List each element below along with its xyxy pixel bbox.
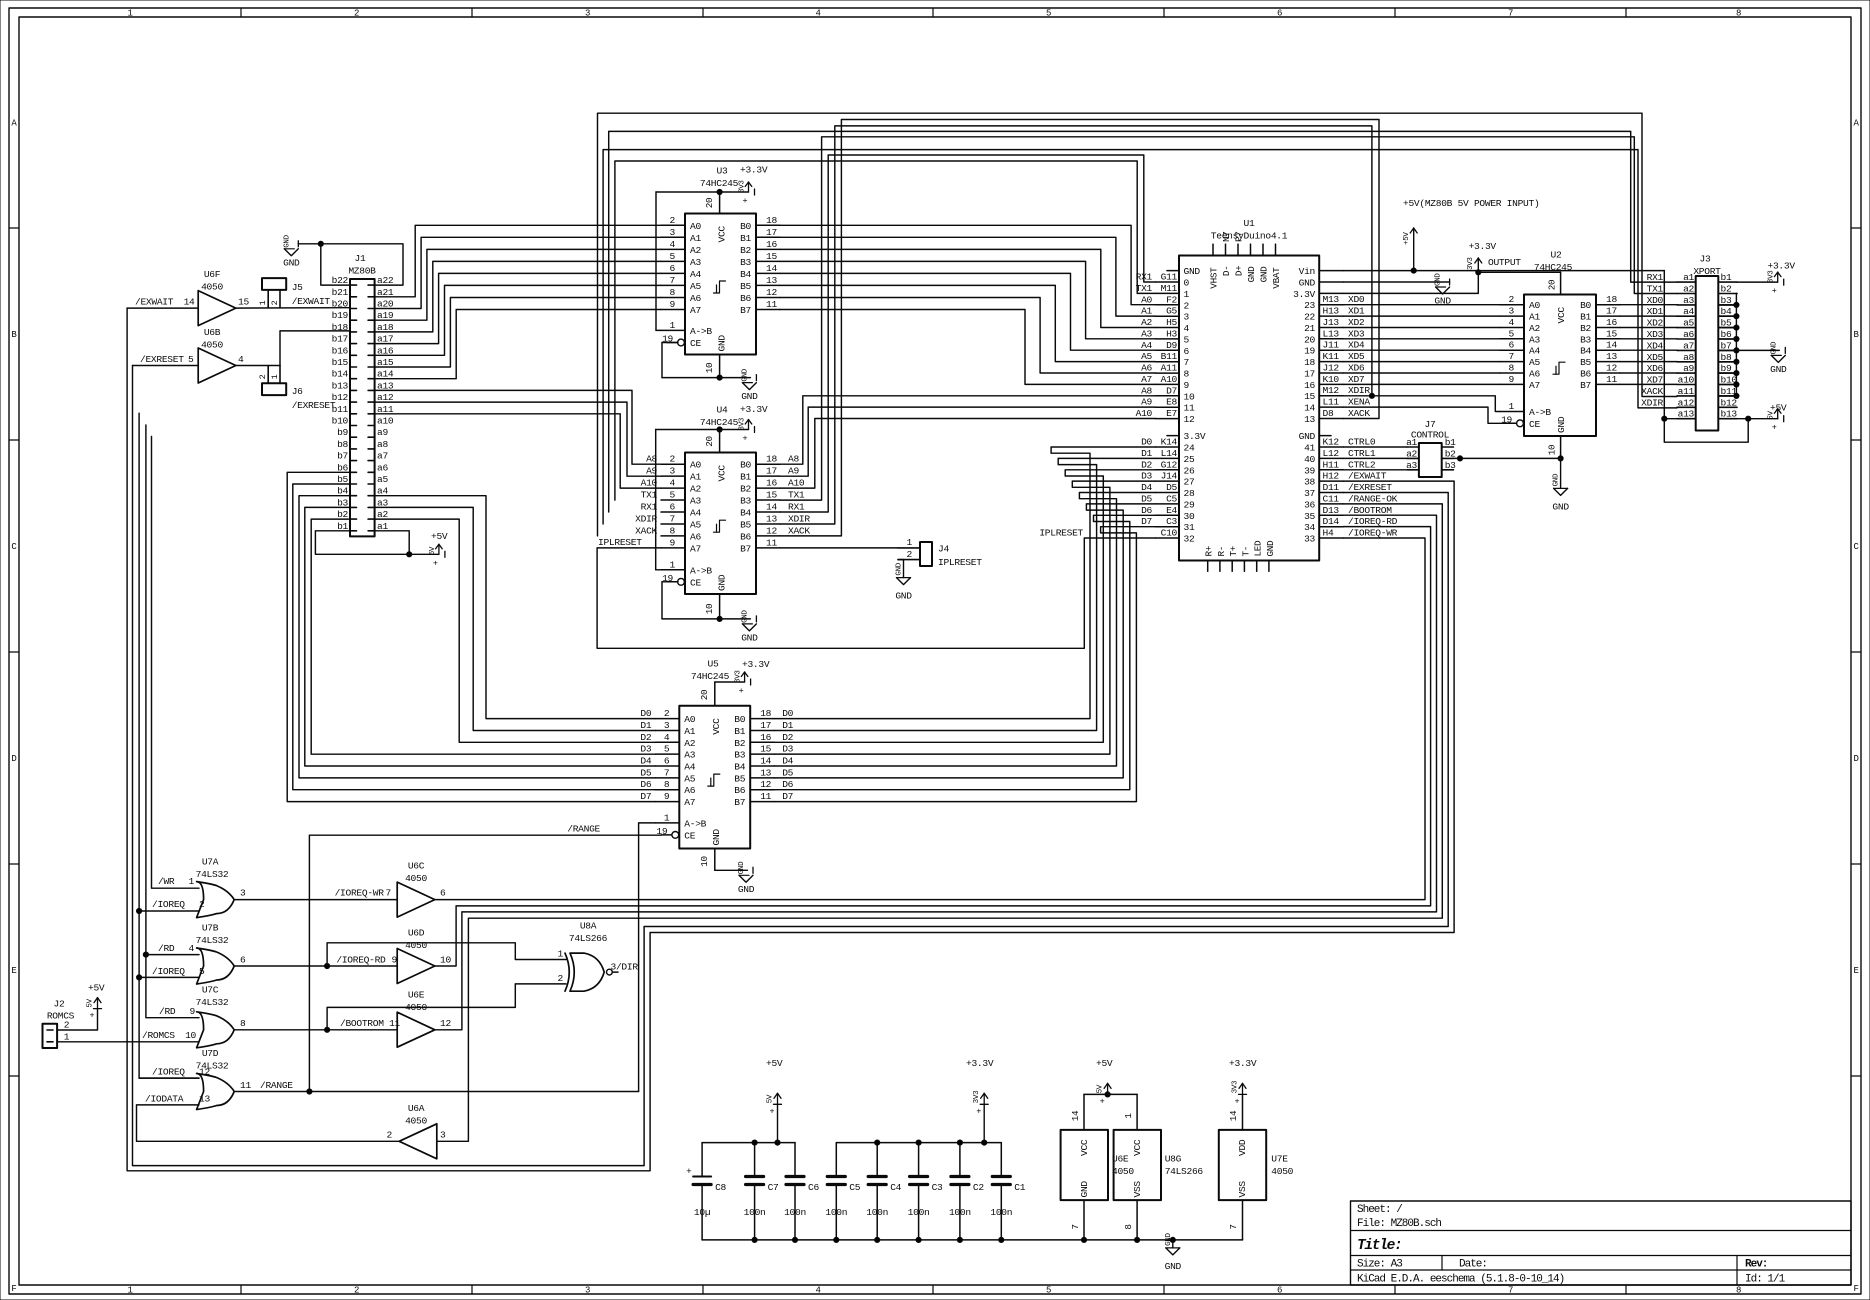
svg-text:74LS32: 74LS32 xyxy=(196,869,229,880)
svg-text:A1: A1 xyxy=(1141,306,1152,317)
svg-text:D8: D8 xyxy=(1323,408,1334,419)
svg-text:U2: U2 xyxy=(1551,250,1562,261)
svg-text:4050: 4050 xyxy=(1271,1166,1293,1177)
svg-text:6: 6 xyxy=(1277,9,1282,19)
svg-text:A2: A2 xyxy=(684,738,695,749)
svg-text:4050: 4050 xyxy=(405,873,427,884)
svg-text:C10: C10 xyxy=(1161,528,1178,539)
svg-text:6: 6 xyxy=(670,263,676,274)
svg-text:23: 23 xyxy=(1304,300,1315,311)
svg-text:1: 1 xyxy=(64,1031,70,1042)
svg-text:D-: D- xyxy=(1221,266,1232,277)
svg-text:F2: F2 xyxy=(1166,294,1177,305)
IC U1 TeensyDuino4.1 xyxy=(1179,256,1319,561)
svg-text:GND: GND xyxy=(717,335,728,352)
svg-text:A7: A7 xyxy=(684,797,695,808)
svg-text:+3.3V: +3.3V xyxy=(1768,261,1796,272)
svg-text:U6A: U6A xyxy=(408,1103,425,1114)
svg-text:U4: U4 xyxy=(717,405,728,416)
svg-text:A5: A5 xyxy=(690,520,701,531)
svg-text:J14: J14 xyxy=(1161,471,1178,482)
svg-text:3: 3 xyxy=(585,9,590,19)
ground symbol at J3 b7 xyxy=(1784,347,1786,353)
svg-text:2: 2 xyxy=(387,1130,393,1141)
svg-text:CE: CE xyxy=(690,577,701,588)
svg-text:/EXRESET: /EXRESET xyxy=(292,400,336,411)
wire net /IOREQ-RD to U8A.1 xyxy=(327,943,566,966)
svg-text:B2: B2 xyxy=(1580,323,1591,334)
svg-text:4: 4 xyxy=(1184,323,1190,334)
power symbol +5V MZ80B power input xyxy=(1413,228,1415,271)
svg-text:B1: B1 xyxy=(740,472,751,483)
svg-text:E: E xyxy=(11,966,16,976)
svg-text:+: + xyxy=(433,558,438,568)
svg-text:K10: K10 xyxy=(1323,374,1340,385)
svg-text:14: 14 xyxy=(766,502,777,513)
svg-text:9: 9 xyxy=(190,1006,196,1017)
svg-text:1: 1 xyxy=(1509,401,1515,412)
svg-text:+: + xyxy=(1772,286,1777,296)
svg-text:20: 20 xyxy=(699,690,710,701)
wire net A8 J1.a13 to U4.A0 xyxy=(375,390,661,464)
svg-text:12: 12 xyxy=(1184,414,1195,425)
svg-text:OUTPUT: OUTPUT xyxy=(1488,257,1521,268)
svg-text:B: B xyxy=(11,330,17,340)
svg-text:A0: A0 xyxy=(684,714,695,725)
svg-text:12: 12 xyxy=(199,1067,210,1078)
wire net GND U1 right xyxy=(1343,281,1449,283)
svg-text:XDIR: XDIR xyxy=(1641,397,1663,408)
wire bus J1 a21-a14 to U3 A0-A7 xyxy=(375,225,661,296)
capacitor C4 xyxy=(876,1143,878,1177)
svg-text:4050: 4050 xyxy=(201,340,223,351)
svg-text:10µ: 10µ xyxy=(694,1207,711,1218)
svg-text:U6D: U6D xyxy=(408,928,425,939)
svg-text:GND: GND xyxy=(1184,266,1201,277)
U1 bottom pins xyxy=(1207,561,1209,572)
svg-text:37: 37 xyxy=(1304,488,1315,499)
svg-text:b19: b19 xyxy=(332,310,349,321)
svg-text:B7: B7 xyxy=(734,797,745,808)
svg-text:D3: D3 xyxy=(782,744,793,755)
svg-text:B3: B3 xyxy=(740,496,751,507)
svg-text:XD3: XD3 xyxy=(1348,328,1365,339)
svg-text:24: 24 xyxy=(1184,443,1195,454)
svg-text:4: 4 xyxy=(670,478,676,489)
svg-text:74HC245: 74HC245 xyxy=(1534,262,1573,273)
power symbol +5V at J1 bottom xyxy=(438,544,440,554)
svg-text:12: 12 xyxy=(1606,363,1617,374)
svg-text:A9: A9 xyxy=(1141,397,1152,408)
svg-text:18: 18 xyxy=(1606,294,1617,305)
svg-text:C8: C8 xyxy=(715,1182,726,1193)
svg-text:B1: B1 xyxy=(1580,312,1591,323)
svg-text:12: 12 xyxy=(760,779,771,790)
svg-text:5V: 5V xyxy=(1097,1084,1105,1093)
svg-text:+5V: +5V xyxy=(766,1058,783,1069)
svg-text:LED: LED xyxy=(1253,540,1264,557)
svg-text:B2: B2 xyxy=(740,484,751,495)
svg-text:8: 8 xyxy=(664,779,670,790)
U5 GND pin 10 xyxy=(714,849,716,871)
wire bus U2 B to J3 a3-a10 xyxy=(1620,304,1677,306)
buffer U6E 4050 xyxy=(397,1012,435,1047)
svg-text:GND: GND xyxy=(895,591,912,602)
power unit U6E 4050 VCC/GND xyxy=(1061,1130,1108,1200)
svg-text:C6: C6 xyxy=(808,1182,819,1193)
svg-text:b12: b12 xyxy=(1721,397,1738,408)
svg-text:GND: GND xyxy=(1079,1181,1090,1198)
wire net A8 U4.B0 to U1 xyxy=(780,396,1156,464)
svg-text:XACK: XACK xyxy=(1348,408,1370,419)
wire net /WR to U7A.1 xyxy=(152,437,200,889)
svg-text:B7: B7 xyxy=(1580,380,1591,391)
svg-text:/ROMCS: /ROMCS xyxy=(142,1030,175,1041)
svg-text:a1: a1 xyxy=(1406,437,1417,448)
svg-text:7: 7 xyxy=(1508,9,1513,19)
svg-text:/IOREQ-RD: /IOREQ-RD xyxy=(336,955,386,966)
svg-text:U6B: U6B xyxy=(204,327,221,338)
svg-text:GND: GND xyxy=(1165,1261,1182,1272)
svg-text:RX1: RX1 xyxy=(1647,272,1664,283)
svg-text:D3: D3 xyxy=(1141,471,1152,482)
svg-text:A10: A10 xyxy=(788,478,805,489)
or-gate U7C 74LS32 xyxy=(197,1012,235,1048)
power symbol +3.3V OUTPUT xyxy=(1477,258,1479,272)
svg-text:3V3: 3V3 xyxy=(1467,257,1475,270)
svg-text:A->B: A->B xyxy=(690,565,712,576)
U2 GND pin 10 xyxy=(1560,436,1562,458)
svg-text:D7: D7 xyxy=(640,791,651,802)
svg-text:B3: B3 xyxy=(734,750,745,761)
U5 VCC pin 20 wire and +3.3V xyxy=(714,682,716,706)
wire net GND J3 b-side chain xyxy=(1735,293,1738,295)
svg-text:GND: GND xyxy=(1265,540,1276,557)
U4 DIR pin 1 riser xyxy=(655,430,657,570)
wire net /BOOTROM U6E out to U1 pin 35 xyxy=(435,515,1437,1030)
svg-text:B0: B0 xyxy=(1580,300,1591,311)
svg-text:B7: B7 xyxy=(740,305,751,316)
svg-text:18: 18 xyxy=(766,215,777,226)
svg-text:B2: B2 xyxy=(740,245,751,256)
svg-text:1: 1 xyxy=(127,9,132,19)
svg-text:a1: a1 xyxy=(1683,272,1694,283)
svg-text:+5V: +5V xyxy=(1770,403,1787,414)
svg-text:7: 7 xyxy=(670,514,675,525)
svg-text:B6: B6 xyxy=(740,293,751,304)
svg-text:b1: b1 xyxy=(1445,437,1456,448)
wire net D6 J1.b5 to U5.A6 xyxy=(293,484,656,790)
svg-text:G12: G12 xyxy=(1161,459,1178,470)
svg-text:VCC: VCC xyxy=(1556,307,1567,324)
svg-text:U3: U3 xyxy=(717,166,728,177)
svg-text:D7: D7 xyxy=(1166,385,1177,396)
svg-text:U6F: U6F xyxy=(204,269,221,280)
svg-text:+: + xyxy=(770,1106,775,1116)
buffer U6F 4050 xyxy=(198,291,236,326)
svg-text:A3: A3 xyxy=(690,257,701,268)
svg-text:B4: B4 xyxy=(740,508,751,519)
svg-text:T-: T- xyxy=(1240,546,1251,557)
svg-text:7: 7 xyxy=(1070,1224,1081,1229)
wire /DIR output xyxy=(612,971,618,973)
buffer U6A 4050 (reversed) xyxy=(399,1124,437,1159)
svg-text:B6: B6 xyxy=(1580,369,1591,380)
svg-text:U6C: U6C xyxy=(408,861,425,872)
svg-text:M11: M11 xyxy=(1161,283,1178,294)
wire net IPLRESET U4.B7 to J4 pin1 xyxy=(780,547,898,549)
svg-text:A2: A2 xyxy=(1529,323,1540,334)
svg-text:CTRL0: CTRL0 xyxy=(1348,437,1376,448)
capacitor C1 xyxy=(1000,1143,1002,1177)
U1 right pins xyxy=(1319,270,1343,272)
svg-text:+5V: +5V xyxy=(88,983,105,994)
svg-text:74LS32: 74LS32 xyxy=(196,997,229,1008)
svg-text:GND: GND xyxy=(1770,364,1787,375)
svg-text:13: 13 xyxy=(760,767,771,778)
svg-text:9: 9 xyxy=(670,537,676,548)
svg-text:/EXWAIT: /EXWAIT xyxy=(292,296,331,307)
svg-text:5V: 5V xyxy=(429,546,437,555)
svg-text:5V: 5V xyxy=(767,1094,775,1103)
xor-gate U8A 74LS266 xyxy=(570,953,604,991)
svg-text:100n: 100n xyxy=(866,1207,888,1218)
svg-text:2: 2 xyxy=(670,215,676,226)
capacitor C3 xyxy=(918,1143,920,1177)
wire bus U3 B0-B7 to U1 A0-A7 xyxy=(780,225,1156,304)
svg-text:4050: 4050 xyxy=(405,940,427,951)
svg-text:a6: a6 xyxy=(377,462,388,473)
svg-text:74HC245: 74HC245 xyxy=(700,178,739,189)
svg-text:B5: B5 xyxy=(740,281,751,292)
svg-text:27: 27 xyxy=(1184,477,1195,488)
svg-text:A11: A11 xyxy=(1161,363,1178,374)
wire net RX1 U4.B4 riser to U1 xyxy=(780,155,1156,512)
wire net RX1 top line xyxy=(609,131,1677,512)
wire J3.b7 to ground xyxy=(1736,349,1779,351)
svg-text:J4: J4 xyxy=(938,544,949,555)
svg-text:b15: b15 xyxy=(332,357,349,368)
svg-text:A1: A1 xyxy=(684,726,695,737)
svg-text:3.3V: 3.3V xyxy=(1293,289,1315,300)
svg-text:A2: A2 xyxy=(1141,317,1152,328)
svg-text:74HC245: 74HC245 xyxy=(700,417,739,428)
svg-text:10: 10 xyxy=(704,363,715,374)
svg-text:a8: a8 xyxy=(377,439,388,450)
svg-text:U7B: U7B xyxy=(202,923,219,934)
svg-text:19: 19 xyxy=(1304,346,1315,357)
svg-text:1: 1 xyxy=(670,559,676,570)
svg-text:17: 17 xyxy=(766,466,777,477)
svg-text:31: 31 xyxy=(1184,522,1195,533)
svg-text:C3: C3 xyxy=(1166,516,1177,527)
svg-text:/EXRESET: /EXRESET xyxy=(1348,482,1392,493)
wire J6 pin1 to J1.b18 xyxy=(280,331,350,366)
svg-text:D13: D13 xyxy=(1323,505,1340,516)
svg-text:8: 8 xyxy=(1736,9,1741,19)
svg-text:5: 5 xyxy=(670,251,676,262)
svg-text:B6: B6 xyxy=(734,785,745,796)
svg-text:D2: D2 xyxy=(1141,459,1152,470)
svg-text:4: 4 xyxy=(815,9,820,19)
svg-text:3: 3 xyxy=(1184,312,1190,323)
svg-text:RX1: RX1 xyxy=(1136,272,1153,283)
svg-text:38: 38 xyxy=(1304,477,1315,488)
buffer U6C 4050 xyxy=(397,882,435,917)
wire net XENA to U2 CE xyxy=(1343,407,1516,423)
svg-text:a2: a2 xyxy=(1406,448,1417,459)
svg-text:D0: D0 xyxy=(1141,437,1152,448)
connector J7 CONTROL xyxy=(1419,443,1442,477)
svg-text:C4: C4 xyxy=(890,1182,901,1193)
svg-text:U7E: U7E xyxy=(1271,1154,1288,1165)
svg-text:+: + xyxy=(90,1011,95,1021)
svg-text:4: 4 xyxy=(189,943,195,954)
svg-text:B0: B0 xyxy=(740,221,751,232)
svg-text:D1: D1 xyxy=(782,720,793,731)
power unit U7E 4050 VDD/VSS xyxy=(1219,1130,1266,1200)
svg-text:3V3: 3V3 xyxy=(973,1090,981,1103)
svg-text:GND: GND xyxy=(738,861,746,874)
svg-text:3/DIR: 3/DIR xyxy=(611,962,639,973)
svg-text:+: + xyxy=(743,196,748,206)
svg-text:GND: GND xyxy=(1770,341,1778,354)
ground symbol below J4 xyxy=(903,560,905,578)
capacitor C5 xyxy=(835,1143,837,1177)
svg-text:A0: A0 xyxy=(1141,294,1152,305)
svg-text:J6: J6 xyxy=(292,386,303,397)
svg-text:3: 3 xyxy=(670,227,676,238)
ground symbol right of U1 xyxy=(1449,279,1451,285)
svg-text:11: 11 xyxy=(766,537,777,548)
wire +5V power units xyxy=(1084,1093,1137,1095)
svg-text:D5: D5 xyxy=(1166,482,1177,493)
wire U7A.3 to U6C xyxy=(234,899,397,901)
svg-text:6: 6 xyxy=(1509,340,1515,351)
svg-text:+5V: +5V xyxy=(1096,1058,1113,1069)
svg-text:D6: D6 xyxy=(1141,505,1152,516)
wire net D4 J1.b3 to U5.A4 xyxy=(305,507,656,766)
svg-text:C: C xyxy=(11,542,17,552)
svg-text:10: 10 xyxy=(440,955,451,966)
connector J6 /EXRESET xyxy=(262,383,286,395)
svg-text:B0: B0 xyxy=(734,714,745,725)
svg-text:14: 14 xyxy=(760,756,771,767)
svg-text:/BOOTROM: /BOOTROM xyxy=(1348,505,1392,516)
svg-text:IPLRESET: IPLRESET xyxy=(598,537,642,548)
or-gate U7B 74LS32 xyxy=(197,948,235,984)
svg-text:4050: 4050 xyxy=(201,282,223,293)
svg-text:L13: L13 xyxy=(1323,328,1340,339)
svg-text:E7: E7 xyxy=(1166,408,1177,419)
svg-text:b2: b2 xyxy=(1721,284,1732,295)
svg-text:1: 1 xyxy=(907,537,913,548)
svg-text:F: F xyxy=(11,1284,16,1294)
svg-text:b8: b8 xyxy=(337,439,348,450)
capacitor C6 xyxy=(794,1143,796,1177)
ground symbol at J1 top xyxy=(297,241,299,247)
svg-text:A2: A2 xyxy=(690,484,701,495)
ground symbol below U4 xyxy=(755,616,757,622)
svg-text:A8: A8 xyxy=(1141,385,1152,396)
svg-text:b13: b13 xyxy=(332,380,349,391)
IC U3 74HC245 xyxy=(685,214,756,355)
svg-text:Rev:: Rev: xyxy=(1745,1259,1767,1271)
svg-text:14: 14 xyxy=(184,297,195,308)
svg-text:GND: GND xyxy=(741,632,758,643)
svg-text:40: 40 xyxy=(1304,454,1315,465)
svg-text:VCC: VCC xyxy=(1079,1139,1090,1156)
svg-text:A1: A1 xyxy=(690,233,701,244)
svg-text:Id: 1/1: Id: 1/1 xyxy=(1745,1274,1786,1286)
svg-text:8: 8 xyxy=(1509,363,1515,374)
svg-text:C5: C5 xyxy=(1166,493,1177,504)
svg-text:22: 22 xyxy=(1304,312,1315,323)
svg-text:a11: a11 xyxy=(1678,386,1695,397)
svg-text:a12: a12 xyxy=(1678,397,1695,408)
svg-text:C1: C1 xyxy=(1014,1182,1025,1193)
wire U7B.6 to U6D xyxy=(234,965,397,967)
svg-text:+3.3V: +3.3V xyxy=(1469,241,1497,252)
power unit U8G 74LS266 VCC/VSS xyxy=(1114,1130,1161,1200)
ground symbol below U3 xyxy=(755,375,757,381)
svg-text:XDIR: XDIR xyxy=(1348,385,1370,396)
svg-text:A8: A8 xyxy=(788,454,799,465)
svg-text:L11: L11 xyxy=(1323,397,1340,408)
svg-text:CE: CE xyxy=(690,338,701,349)
svg-text:/RD: /RD xyxy=(158,943,175,954)
capacitor C2 xyxy=(959,1143,961,1177)
svg-text:D11: D11 xyxy=(1323,482,1340,493)
svg-text:U8A: U8A xyxy=(580,921,597,932)
svg-text:GND: GND xyxy=(711,829,722,846)
wire net D3 J1.b2 to U5.A3 xyxy=(311,519,655,754)
svg-text:+: + xyxy=(1235,1096,1240,1106)
svg-text:3: 3 xyxy=(670,466,676,477)
svg-text:D3: D3 xyxy=(640,744,651,755)
wire net XDIR U4.B5 riser to U1 xyxy=(780,126,1372,524)
svg-text:a7: a7 xyxy=(1683,340,1694,351)
svg-text:a9: a9 xyxy=(1683,363,1694,374)
connector J4 IPLRESET xyxy=(920,542,932,566)
svg-text:5: 5 xyxy=(1046,9,1051,19)
svg-text:D4: D4 xyxy=(640,756,651,767)
svg-text:XD4: XD4 xyxy=(1348,340,1365,351)
svg-text:D14: D14 xyxy=(1323,516,1340,527)
svg-text:a9: a9 xyxy=(377,427,388,438)
svg-text:14: 14 xyxy=(1070,1110,1081,1121)
svg-text:A5: A5 xyxy=(690,281,701,292)
svg-text:+3.3V: +3.3V xyxy=(742,659,770,670)
svg-text:2: 2 xyxy=(270,300,280,305)
svg-text:U7C: U7C xyxy=(202,985,219,996)
svg-text:16: 16 xyxy=(1304,380,1315,391)
svg-text:XACK: XACK xyxy=(788,525,810,536)
svg-text:F: F xyxy=(1853,1284,1858,1294)
U4 CE and GND pin 10 xyxy=(662,581,678,583)
svg-text:3V3: 3V3 xyxy=(739,417,747,430)
svg-text:a7: a7 xyxy=(377,451,388,462)
wire net /IOREQ-RD U6D out to U1 pin 34 xyxy=(435,527,1431,966)
svg-text:11: 11 xyxy=(1184,403,1195,414)
svg-text:4: 4 xyxy=(1509,317,1515,328)
svg-text:+: + xyxy=(1772,423,1777,433)
svg-text:6: 6 xyxy=(240,955,246,966)
svg-text:29: 29 xyxy=(1184,499,1195,510)
or-gate U7D 74LS32 xyxy=(197,1074,235,1110)
svg-text:a13: a13 xyxy=(1678,409,1695,420)
svg-text:100n: 100n xyxy=(744,1207,766,1218)
